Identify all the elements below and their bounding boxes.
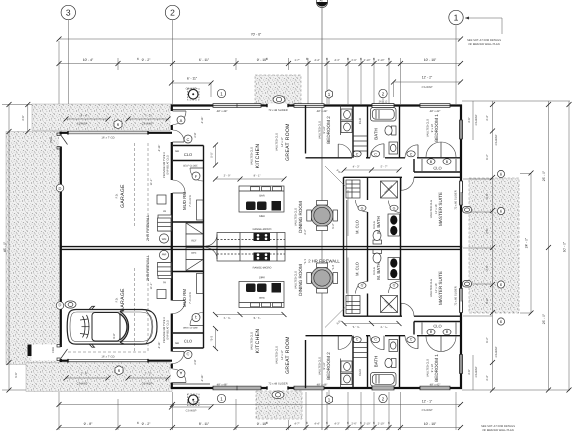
svg-text:¢: ¢	[137, 57, 139, 61]
svg-text:KITCHEN: KITCHEN	[255, 144, 261, 169]
svg-text:3'-6": 3'-6"	[22, 115, 25, 120]
a-pillar ticks	[120, 310, 125, 345]
svg-text:2'-6": 2'-6"	[351, 59, 356, 62]
svg-text:10' - 10": 10' - 10"	[424, 422, 437, 426]
svg-text:WM: WM	[162, 238, 167, 241]
bedroom1 right window	[460, 120, 463, 139]
svg-text:GB: GB	[175, 342, 179, 345]
bottom entry dims	[172, 406, 212, 408]
svg-text:CLO: CLO	[358, 117, 362, 124]
svg-text:8' - 11": 8' - 11"	[199, 422, 210, 426]
svg-text:VAULTED CLG: VAULTED CLG	[251, 147, 254, 165]
svg-text:6' - 11": 6' - 11"	[199, 58, 210, 62]
grid bubble 1	[449, 10, 463, 104]
svg-text:25' - 0": 25' - 0"	[542, 313, 546, 324]
svg-text:CS-WSP: CS-WSP	[495, 346, 498, 357]
svg-text:VAULTED CLG: VAULTED CLG	[276, 346, 279, 364]
svg-text:2'-8": 2'-8"	[194, 359, 197, 364]
svg-text:11'-1": 11'-1"	[150, 179, 153, 186]
svg-text:3'-0": 3'-0"	[335, 169, 341, 175]
svg-text:5'-6": 5'-6"	[15, 372, 18, 377]
right patio stipple	[469, 178, 519, 313]
right-wall pill window marker	[463, 207, 472, 214]
svg-text:3' - 0": 3' - 0"	[224, 175, 231, 178]
entry porch inner line	[172, 109, 210, 111]
mud rm east wall	[203, 146, 205, 247]
bedroom2 side fixtures (2 sinks)	[340, 105, 342, 135]
svg-text:¢: ¢	[388, 421, 390, 425]
svg-text:9' x 8': 9' x 8'	[323, 362, 326, 369]
svg-text:CS-WSP: CS-WSP	[186, 410, 197, 413]
bath toilet	[392, 126, 397, 135]
svg-text:4'-10": 4'-10"	[158, 145, 161, 152]
svg-text:M. BATH: M. BATH	[376, 262, 381, 279]
svg-text:VAULTED CLG: VAULTED CLG	[430, 200, 433, 218]
right exterior wall	[460, 105, 462, 248]
svg-text:CLO: CLO	[184, 338, 192, 343]
svg-text:VAULTED CLG: VAULTED CLG	[276, 133, 279, 151]
brace bubbles right	[497, 170, 504, 177]
svg-text:9' - 10": 9' - 10"	[257, 58, 268, 62]
garage interior dims	[68, 137, 153, 359]
svg-text:6' - 11": 6' - 11"	[187, 77, 198, 81]
svg-text:GB: GB	[175, 150, 179, 153]
svg-text:48" x 48": 48" x 48"	[317, 110, 328, 113]
master door arc	[401, 177, 414, 190]
stipple band labels	[64, 115, 171, 386]
svg-text:9' x 10': 9' x 10'	[431, 363, 434, 372]
svg-text:2'-10": 2'-10"	[378, 423, 385, 426]
svg-text:C: C	[374, 153, 377, 157]
svg-text:4'-10": 4'-10"	[158, 342, 161, 349]
svg-text:F.D.: F.D.	[116, 193, 119, 198]
svg-text:KITCHEN: KITCHEN	[255, 329, 261, 354]
svg-text:6'-2": 6'-2"	[486, 154, 489, 159]
svg-text:4'-3": 4'-3"	[334, 423, 339, 426]
svg-text:CS-WSP: CS-WSP	[142, 383, 153, 386]
svg-text:OF BRACED WALL PLAN: OF BRACED WALL PLAN	[468, 43, 499, 46]
leader note top right	[465, 17, 502, 47]
svg-text:9 CLG: 9 CLG	[373, 221, 376, 229]
svg-text:14' x 17': 14' x 17'	[281, 137, 284, 147]
svg-text:2'-6": 2'-6"	[351, 423, 356, 426]
svg-text:2 HR FIREWALL: 2 HR FIREWALL	[308, 259, 340, 264]
svg-text:RANGE-MICRO: RANGE-MICRO	[253, 228, 272, 231]
master closet shelves	[346, 180, 360, 198]
svg-text:3: 3	[66, 8, 71, 18]
svg-text:VAULTED CLG: VAULTED CLG	[295, 208, 298, 226]
svg-text:CS-WSP: CS-WSP	[495, 134, 498, 145]
svg-text:48" x 42": 48" x 42"	[430, 110, 441, 113]
svg-text:45' - 0": 45' - 0"	[3, 241, 7, 252]
svg-text:50' - 0": 50' - 0"	[563, 241, 567, 252]
svg-text:11'-1": 11'-1"	[150, 283, 153, 290]
svg-text:M. CLO: M. CLO	[355, 220, 360, 234]
svg-text:M. BATH: M. BATH	[376, 216, 381, 233]
svg-text:F.D.: F.D.	[116, 297, 119, 302]
bottom driveway band	[26, 363, 172, 392]
windshield band	[120, 312, 129, 343]
svg-text:VAULTED CLG: VAULTED CLG	[430, 279, 433, 297]
bathtub	[371, 108, 397, 122]
cabin roof	[92, 313, 120, 342]
svg-text:SINK: SINK	[259, 215, 265, 218]
svg-text:6'-2": 6'-2"	[486, 337, 489, 342]
section marker A6 top	[316, 0, 327, 430]
svg-text:4' - 3": 4' - 3"	[353, 166, 360, 169]
svg-text:DINING ROOM: DINING ROOM	[298, 264, 303, 296]
svg-text:BEDROOM 2: BEDROOM 2	[326, 116, 331, 144]
leader note bottom right	[481, 425, 515, 432]
svg-text:G: G	[361, 207, 364, 211]
svg-text:GREAT ROOM: GREAT ROOM	[285, 336, 291, 374]
svg-text:6'-8": 6'-8"	[486, 298, 489, 303]
mud rm bench	[197, 200, 204, 220]
svg-text:VAULTED CLO: VAULTED CLO	[427, 119, 430, 137]
bedroom row south wall	[306, 157, 353, 159]
svg-text:72 x 60 SLIDER: 72 x 60 SLIDER	[455, 286, 458, 305]
svg-text:70' - 0": 70' - 0"	[251, 33, 262, 37]
svg-text:¢: ¢	[373, 421, 375, 425]
top porch stipple	[255, 75, 301, 104]
svg-text:2R: 2R	[163, 210, 166, 213]
svg-text:CS-WSP: CS-WSP	[475, 366, 478, 377]
mud rm south wall	[172, 221, 204, 223]
svg-text:GYP BD AT CLG: GYP BD AT CLG	[167, 320, 170, 339]
garage service door D	[59, 135, 62, 147]
svg-text:9'-8": 9'-8"	[113, 333, 116, 338]
svg-text:3'-4": 3'-4"	[486, 375, 489, 380]
svg-text:RANGE-MICRO: RANGE-MICRO	[253, 267, 272, 270]
walkway notch in left strip	[32, 345, 61, 361]
svg-text:24' - 0": 24' - 0"	[525, 237, 529, 248]
svg-text:16' x 7' GD: 16' x 7' GD	[101, 137, 114, 140]
svg-text:CS-WSP: CS-WSP	[422, 409, 433, 412]
master bath toilet	[373, 240, 382, 244]
svg-text:4'-2": 4'-2"	[304, 229, 307, 234]
svg-text:REF: REF	[191, 240, 197, 243]
door arc M bath right	[389, 201, 401, 213]
garage annotations	[158, 117, 204, 382]
svg-text:4'-7": 4'-7"	[294, 423, 299, 426]
svg-text:¢: ¢	[306, 57, 308, 61]
dining side wall dims	[347, 190, 349, 236]
svg-text:3'-4": 3'-4"	[486, 115, 489, 120]
svg-text:72 x 48 SLIDER: 72 x 48 SLIDER	[268, 383, 287, 386]
svg-text:4'-10": 4'-10"	[201, 117, 204, 124]
window glyphs on top wall (dark band style)	[213, 103, 450, 107]
CLO corridor bedroom1	[413, 159, 415, 172]
svg-text:14' x 17': 14' x 17'	[281, 350, 284, 360]
svg-text:¢: ¢	[137, 421, 139, 425]
svg-text:8' - 4": 8' - 4"	[81, 115, 88, 118]
top driveway band	[32, 104, 172, 131]
dimension row 2 (top, y=63.5)	[57, 41, 464, 104]
svg-text:7'-0 x 6'-6: 7'-0 x 6'-6	[189, 292, 192, 304]
svg-text:MASTER SUITE: MASTER SUITE	[438, 192, 443, 226]
svg-text:¢: ¢	[360, 421, 362, 425]
svg-text:16' x 7' GD: 16' x 7' GD	[101, 356, 114, 359]
interior dim diag	[325, 166, 345, 186]
svg-text:FRH: FRH	[50, 137, 53, 143]
svg-text:BAR: BAR	[259, 195, 264, 198]
rear defroster hatches	[83, 315, 90, 338]
svg-text:BEDROOM 1: BEDROOM 1	[434, 354, 439, 382]
svg-text:SEE SHT. A7 FOR DETAILS: SEE SHT. A7 FOR DETAILS	[467, 39, 501, 42]
svg-text:4'-10": 4'-10"	[201, 375, 204, 382]
CLO strip between bed2 and bath	[367, 105, 369, 158]
dining chairs + table	[307, 201, 338, 231]
svg-text:¢: ¢	[388, 57, 390, 61]
svg-text:CLO: CLO	[184, 152, 192, 157]
svg-text:2'-10": 2'-10"	[378, 59, 385, 62]
svg-text:48" x 42": 48" x 42"	[430, 384, 441, 387]
entry door gap in top wall	[267, 104, 288, 108]
svg-text:CS-WSP: CS-WSP	[422, 86, 433, 89]
2 HR firewall (center)	[60, 215, 461, 281]
car body outline	[67, 310, 157, 345]
svg-text:¢: ¢	[326, 421, 328, 425]
column footing symbol top	[188, 89, 200, 101]
svg-text:8' - 1": 8' - 1"	[254, 175, 261, 178]
svg-text:9' - 2": 9' - 2"	[142, 58, 151, 62]
svg-text:CS-WSP: CS-WSP	[142, 123, 153, 126]
door C opening lower	[171, 130, 174, 142]
svg-text:3'-6": 3'-6"	[468, 369, 471, 374]
svg-text:BATH: BATH	[374, 128, 379, 139]
dim row 3 right: 12'-2 CS-WSP	[391, 76, 463, 98]
hall dim row	[344, 169, 399, 171]
svg-text:GARAGE: GARAGE	[120, 184, 126, 208]
svg-text:MUD RM: MUD RM	[182, 192, 187, 210]
svg-text:BATH: BATH	[374, 356, 379, 367]
shower	[381, 181, 398, 198]
svg-text:VAULTED CLG: VAULTED CLG	[295, 271, 298, 289]
svg-text:9' x 10': 9' x 10'	[431, 123, 434, 132]
svg-text:36 x 12: 36 x 12	[379, 101, 388, 104]
svg-text:2'-10": 2'-10"	[364, 59, 371, 62]
bottom porch stipple	[256, 391, 302, 419]
small bubbles bottom row	[217, 394, 225, 402]
post (black) at walkway	[28, 345, 32, 357]
svg-text:72 x 60 SLIDER: 72 x 60 SLIDER	[455, 190, 458, 209]
bath vanity	[389, 142, 398, 154]
water heater circle	[159, 234, 168, 243]
master zone west wall	[343, 177, 345, 246]
svg-text:2'-6": 2'-6"	[486, 228, 489, 233]
bath door arc	[370, 144, 384, 158]
small bubbles top row	[217, 89, 225, 97]
svg-text:GYP BD AT CLG: GYP BD AT CLG	[167, 155, 170, 174]
svg-text:CS-WSP: CS-WSP	[475, 114, 478, 125]
svg-text:12' x 15': 12' x 15'	[435, 204, 438, 214]
fridge / pantry boxes	[186, 223, 203, 234]
svg-text:A: A	[180, 118, 183, 123]
svg-text:7' - 8": 7' - 8"	[81, 373, 88, 376]
inner body line	[70, 312, 153, 342]
svg-text:10' - 4": 10' - 4"	[83, 58, 94, 62]
dim row 3 left: 6'-11 CS-WSP	[169, 77, 214, 98]
svg-text:CLO: CLO	[433, 166, 441, 171]
svg-text:VAULTED CLG: VAULTED CLG	[319, 121, 322, 139]
svg-text:CS-WSP: CS-WSP	[77, 383, 88, 386]
svg-text:C: C	[187, 137, 190, 142]
svg-text:SEE SHT. A7 FOR DETAILS: SEE SHT. A7 FOR DETAILS	[481, 425, 515, 428]
svg-text:2'-6": 2'-6"	[486, 265, 489, 270]
grid bubble 2	[165, 5, 179, 104]
svg-text:48" x 48": 48" x 48"	[217, 110, 228, 113]
svg-text:2'-8": 2'-8"	[194, 132, 197, 137]
island sinks (dark)	[246, 202, 256, 211]
svg-text:VAULTED CLO: VAULTED CLO	[427, 359, 430, 377]
svg-text:12' - 2": 12' - 2"	[422, 76, 433, 80]
svg-text:48" x 48": 48" x 48"	[217, 384, 228, 387]
svg-text:10' - 10": 10' - 10"	[424, 58, 437, 62]
svg-text:A6: A6	[320, 0, 324, 3]
svg-text:48" x 48": 48" x 48"	[317, 384, 328, 387]
small box T	[157, 195, 166, 204]
svg-text:1: 1	[454, 13, 459, 23]
svg-text:SELF CLOSE: SELF CLOSE	[183, 165, 198, 168]
dimension row 70'-0"	[57, 33, 464, 42]
svg-text:G: G	[393, 207, 396, 211]
grid bubble 3	[61, 5, 75, 104]
bedroom1 west wall	[399, 105, 401, 158]
bedroom1 closet double doors	[426, 142, 441, 157]
house left wall	[171, 105, 173, 248]
svg-text:DINING ROOM: DINING ROOM	[298, 201, 303, 233]
svg-text:4'-3": 4'-3"	[334, 59, 339, 62]
svg-text:¢: ¢	[326, 57, 328, 61]
master slider opening right wall	[460, 181, 463, 205]
porch oval markers	[272, 96, 285, 399]
svg-text:GREAT ROOM: GREAT ROOM	[285, 123, 291, 161]
svg-text:5' - 7": 5' - 7"	[381, 166, 388, 169]
island	[239, 186, 284, 212]
svg-text:CLO: CLO	[433, 324, 441, 329]
oval marker at car front	[65, 301, 76, 308]
svg-text:7' - 2": 7' - 2"	[145, 115, 152, 118]
svg-text:¢: ¢	[360, 57, 362, 61]
svg-text:¢: ¢	[347, 57, 349, 61]
svg-text:6'-8": 6'-8"	[486, 193, 489, 198]
svg-text:9' - 2": 9' - 2"	[142, 422, 151, 426]
driveway apron stipple: left tall strip	[6, 132, 60, 365]
svg-text:VAULTED CLG: VAULTED CLG	[319, 357, 322, 375]
bedroom1 door arc	[405, 145, 418, 158]
svg-text:MUD RM: MUD RM	[182, 289, 187, 307]
closet CLO walls	[173, 145, 204, 147]
svg-text:25' - 0": 25' - 0"	[542, 170, 546, 181]
svg-text:VAULTED CLG: VAULTED CLG	[251, 332, 254, 350]
svg-text:¢: ¢	[347, 421, 349, 425]
svg-text:C: C	[410, 153, 413, 157]
M.BATH / master wall	[400, 177, 402, 246]
counter along firewall	[217, 233, 285, 247]
garage steps platform	[158, 215, 172, 231]
garage left wall	[60, 132, 62, 248]
svg-text:12' x 15': 12' x 15'	[435, 283, 438, 293]
range dark	[254, 233, 271, 241]
svg-text:9' x 8': 9' x 8'	[323, 126, 326, 133]
svg-text:2'-10": 2'-10"	[364, 423, 371, 426]
svg-text:4'-4": 4'-4"	[314, 59, 319, 62]
svg-text:BEDROOM 2: BEDROOM 2	[326, 352, 331, 380]
svg-text:¢: ¢	[373, 57, 375, 61]
svg-text:9 CLG: 9 CLG	[373, 267, 376, 275]
svg-text:¢: ¢	[306, 421, 308, 425]
svg-text:FRH: FRH	[52, 347, 55, 353]
svg-text:C: C	[356, 153, 359, 157]
mirrors	[89, 306, 95, 347]
bedroom2 door arc	[338, 144, 352, 158]
svg-text:9' - 8": 9' - 8"	[84, 422, 93, 426]
svg-text:7'-0 x 6'-6: 7'-0 x 6'-6	[189, 195, 192, 207]
svg-text:D: D	[59, 186, 62, 191]
entry door opening in left wall	[171, 111, 174, 125]
garage-side door G into mud rm	[171, 180, 174, 193]
M.CLO / M.BATH wall	[367, 177, 369, 200]
svg-text:2: 2	[170, 8, 175, 18]
svg-text:BEDROOM 1: BEDROOM 1	[434, 114, 439, 142]
garage top wall + garage door	[60, 132, 69, 134]
svg-text:7' - 2": 7' - 2"	[145, 373, 152, 376]
bottom garage door dashed travel	[68, 351, 148, 353]
exterior top wall	[171, 104, 462, 106]
svg-text:CS-WSP: CS-WSP	[77, 123, 88, 126]
svg-text:4'-4": 4'-4"	[314, 423, 319, 426]
svg-text:72 x 48 SLIDER: 72 x 48 SLIDER	[268, 109, 287, 112]
svg-text:12' - 1": 12' - 1"	[422, 400, 433, 404]
hood front curves	[146, 311, 152, 344]
svg-text:GARAGE: GARAGE	[120, 288, 126, 312]
master bath vanity dark sinks	[388, 214, 400, 236]
svg-text:5'-5": 5'-5"	[211, 152, 214, 157]
svg-text:3'-6": 3'-6"	[468, 117, 471, 122]
column footing symbol bottom	[188, 394, 200, 406]
svg-text:1'-7": 1'-7"	[294, 59, 299, 62]
svg-text:M. CLO: M. CLO	[355, 262, 360, 276]
door A leaf+arc	[173, 110, 187, 112]
svg-text:9' - 10": 9' - 10"	[257, 422, 268, 426]
svg-text:5'-2": 5'-2"	[332, 223, 335, 228]
svg-text:MASTER SUITE: MASTER SUITE	[438, 271, 443, 305]
kitchen interior dims	[215, 145, 217, 165]
